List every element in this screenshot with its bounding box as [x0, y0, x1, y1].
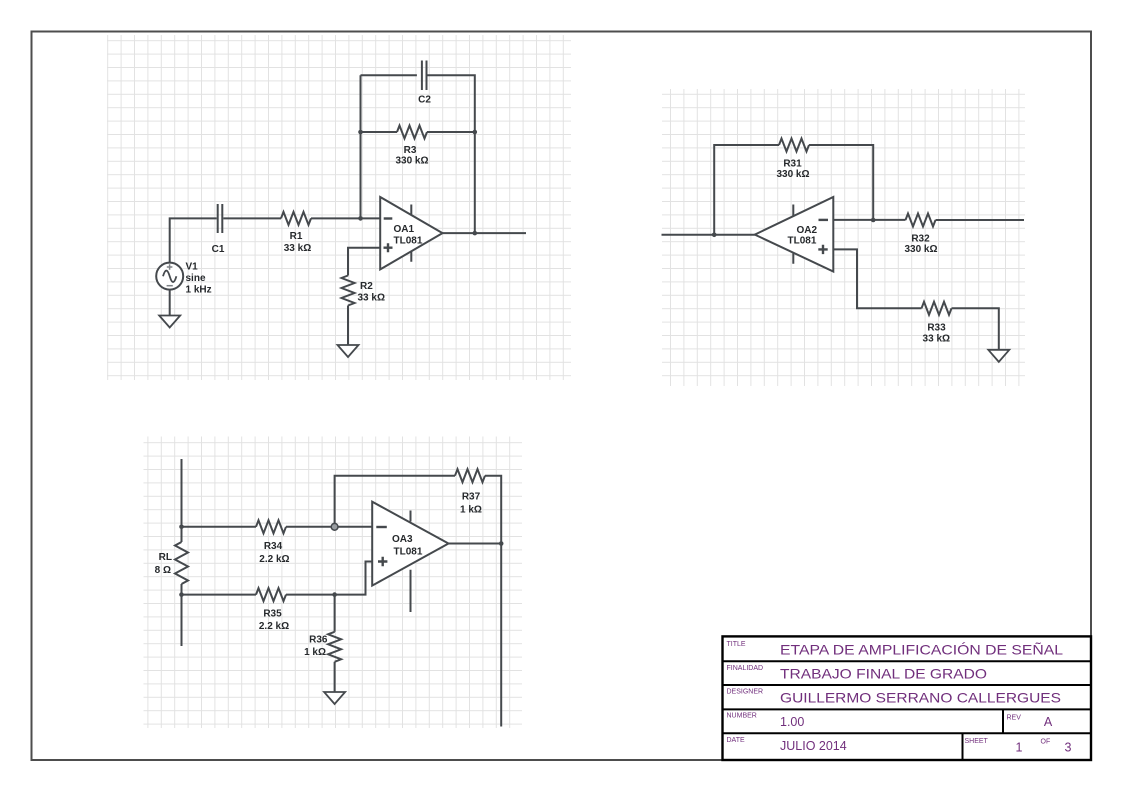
junction node R3 left	[358, 130, 363, 135]
wire R34 to OA3 inverting	[286, 526, 372, 528]
wire OA2 feedback left rail	[714, 145, 779, 235]
svg-text:V1: V1	[186, 262, 199, 273]
svg-text:SHEET: SHEET	[965, 738, 989, 745]
junction node R35 R36	[332, 592, 337, 597]
svg-text:TRABAJO FINAL DE GRADO: TRABAJO FINAL DE GRADO	[780, 666, 987, 682]
resistor R2	[342, 276, 355, 306]
wire R3 branch left	[361, 131, 398, 133]
wire output rail down	[500, 544, 502, 727]
junction node OA3 output	[499, 541, 504, 546]
svg-text:330 kΩ: 330 kΩ	[776, 169, 809, 180]
svg-text:OA3: OA3	[392, 534, 413, 545]
op-amp OA2	[755, 197, 834, 272]
label R34	[259, 541, 289, 565]
svg-text:OF: OF	[1041, 739, 1051, 746]
junction node R3 right	[473, 130, 478, 135]
resistor R3	[397, 126, 427, 139]
svg-text:OA1: OA1	[394, 224, 415, 235]
junction node OA2 inverting	[871, 218, 876, 223]
wire C2 branch right	[428, 75, 475, 233]
ground below R36	[324, 692, 345, 704]
svg-text:RL: RL	[159, 552, 172, 563]
svg-text:R3: R3	[404, 145, 417, 156]
wire R2 to ground	[347, 306, 349, 346]
wire OA2 inverting to R32	[833, 219, 905, 221]
svg-text:R2: R2	[360, 281, 373, 292]
wire OA3 output	[449, 543, 502, 545]
wire R36 top	[334, 595, 336, 632]
svg-text:2.2 kΩ: 2.2 kΩ	[259, 621, 289, 632]
resistor R31	[779, 139, 809, 152]
ground below R2	[338, 345, 359, 357]
svg-text:DESIGNER: DESIGNER	[727, 689, 764, 696]
svg-text:1: 1	[1016, 741, 1023, 755]
wire R3 branch right	[427, 131, 475, 133]
svg-text:330 kΩ: 330 kΩ	[904, 244, 937, 255]
junction node OA2 output	[712, 233, 717, 238]
svg-text:2.2 kΩ: 2.2 kΩ	[259, 554, 289, 565]
svg-text:3: 3	[1065, 741, 1072, 755]
svg-text:GUILLERMO SERRANO CALLERGUES: GUILLERMO SERRANO CALLERGUES	[780, 690, 1061, 706]
svg-text:33 kΩ: 33 kΩ	[923, 333, 950, 344]
svg-text:R36: R36	[309, 635, 328, 646]
resistor R34	[256, 520, 286, 533]
resistor R35	[256, 588, 286, 601]
label R3	[395, 145, 428, 167]
svg-text:TL081: TL081	[788, 235, 817, 246]
wire OA2 input left	[662, 234, 755, 236]
svg-text:TL081: TL081	[394, 546, 423, 557]
junction node OA1 output	[473, 231, 478, 236]
wire RL bottom rail	[181, 584, 183, 646]
svg-text:FINALIDAD: FINALIDAD	[727, 665, 764, 672]
svg-text:R34: R34	[264, 541, 283, 552]
label R37	[460, 491, 482, 515]
wire OA1 output	[443, 232, 527, 234]
wire feedback left rail	[360, 75, 362, 218]
resistor R33	[922, 302, 952, 315]
label RL	[155, 552, 172, 576]
wire R32 right	[936, 219, 1025, 221]
svg-text:DATE: DATE	[727, 737, 745, 744]
wire R35 to noninverting riser	[286, 562, 372, 595]
wire RL left rail	[181, 459, 183, 542]
label R31	[776, 158, 809, 180]
wire R1 to inverting node	[311, 217, 380, 219]
svg-text:C2: C2	[418, 94, 431, 105]
svg-text:R32: R32	[911, 233, 930, 244]
wire R31 right to inverting rail	[809, 145, 873, 220]
label R32	[904, 233, 937, 255]
label OA2	[788, 225, 818, 246]
wire R36 bottom to ground	[334, 662, 336, 692]
wire V1 top to C1	[170, 218, 217, 262]
wire C1 to R1	[223, 217, 281, 219]
svg-text:C1: C1	[212, 244, 225, 255]
junction node at OA1 inverting input	[358, 216, 363, 221]
label R1	[284, 231, 311, 254]
wire feedback up to R37	[335, 476, 455, 527]
svg-text:ETAPA DE AMPLIFICACIÓN DE SEÑA: ETAPA DE AMPLIFICACIÓN DE SEÑAL	[780, 642, 1063, 658]
wire OA1 noninverting to R2	[348, 248, 380, 276]
svg-text:R31: R31	[783, 158, 802, 169]
svg-text:8 Ω: 8 Ω	[155, 565, 171, 576]
svg-text:330 kΩ: 330 kΩ	[395, 156, 428, 167]
resistor R37	[455, 469, 485, 482]
label R2	[358, 281, 385, 303]
wire OA2 noninverting down	[833, 249, 921, 308]
wire C2 branch left	[361, 74, 417, 76]
svg-text:33 kΩ: 33 kΩ	[358, 293, 385, 304]
resistor R1	[281, 212, 311, 225]
ground below V1	[159, 316, 180, 328]
wire lower rail to R35	[182, 594, 257, 596]
node marker OA3 inverting input	[331, 523, 338, 530]
svg-text:NUMBER: NUMBER	[727, 713, 757, 720]
label OA3	[392, 534, 423, 557]
capacitor C1	[218, 204, 223, 233]
svg-text:1 kHz: 1 kHz	[186, 284, 212, 295]
svg-text:R1: R1	[290, 231, 303, 242]
svg-text:TL081: TL081	[394, 235, 423, 246]
label OA1	[394, 224, 423, 246]
label R36	[304, 635, 328, 659]
junction node RL bottom	[179, 592, 184, 597]
capacitor C2	[422, 61, 427, 91]
svg-text:R35: R35	[263, 609, 282, 620]
op-amp OA3	[372, 502, 448, 612]
svg-text:1 kΩ: 1 kΩ	[460, 505, 482, 516]
wire R37 right down to output	[485, 476, 501, 544]
wire V1 bottom to ground	[169, 290, 171, 316]
resistor R32	[906, 214, 936, 227]
wire R33 right to ground	[952, 308, 999, 350]
svg-text:sine: sine	[186, 273, 206, 284]
svg-text:JULIO 2014: JULIO 2014	[780, 739, 847, 753]
junction node RL top	[179, 525, 184, 530]
svg-text:REV: REV	[1007, 715, 1022, 722]
ground below R33	[988, 350, 1009, 362]
label V1	[186, 262, 212, 296]
svg-text:R33: R33	[927, 323, 946, 334]
svg-text:33 kΩ: 33 kΩ	[284, 243, 311, 254]
label R35	[259, 609, 289, 633]
svg-text:TITLE: TITLE	[727, 641, 746, 648]
resistor R36	[328, 632, 341, 662]
resistor RL	[175, 542, 188, 584]
op-amp OA1	[380, 197, 442, 269]
title block frame	[723, 636, 1092, 760]
label R33	[923, 323, 950, 345]
svg-text:1 kΩ: 1 kΩ	[304, 647, 326, 658]
svg-text:R37: R37	[462, 491, 481, 502]
svg-text:1.00: 1.00	[780, 715, 804, 729]
source V1	[156, 263, 183, 290]
wire upper rail to R34	[182, 526, 257, 528]
svg-text:A: A	[1044, 715, 1053, 729]
